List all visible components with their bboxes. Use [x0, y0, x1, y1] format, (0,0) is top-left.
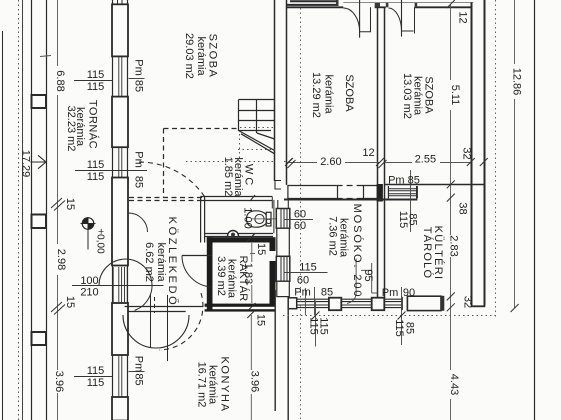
svg-text:KONYHA: KONYHA [219, 356, 231, 412]
svg-text:85: 85 [133, 80, 145, 92]
svg-text:210: 210 [80, 287, 98, 299]
svg-text:Pm 85: Pm 85 [388, 175, 420, 187]
svg-text:60: 60 [294, 209, 306, 221]
svg-text:90: 90 [403, 287, 415, 299]
svg-text:4.43: 4.43 [448, 374, 460, 395]
svg-text:Pm: Pm [133, 356, 145, 373]
svg-text:85: 85 [133, 176, 145, 188]
svg-text:+0,00: +0,00 [95, 228, 106, 254]
svg-text:115: 115 [87, 159, 105, 171]
svg-text:Pm: Pm [133, 151, 145, 168]
svg-text:32: 32 [461, 147, 473, 159]
svg-text:5.11: 5.11 [449, 85, 461, 106]
svg-text:13.03 m2: 13.03 m2 [401, 73, 413, 119]
svg-text:15: 15 [64, 198, 76, 210]
svg-text:1.83: 1.83 [242, 263, 254, 284]
svg-text:SZOBA: SZOBA [207, 34, 219, 79]
svg-text:15: 15 [255, 314, 267, 326]
svg-text:TÁROLÓ: TÁROLÓ [421, 227, 434, 279]
svg-text:3.96: 3.96 [53, 371, 65, 392]
svg-text:29.03 m2: 29.03 m2 [183, 33, 195, 79]
svg-text:12.86: 12.86 [511, 68, 523, 96]
svg-text:60: 60 [294, 220, 306, 232]
svg-text:1.00: 1.00 [242, 207, 254, 228]
svg-text:16.71 m2: 16.71 m2 [196, 362, 208, 408]
svg-text:115: 115 [87, 81, 105, 93]
svg-text:115: 115 [87, 377, 105, 389]
svg-text:3.96: 3.96 [249, 371, 261, 392]
svg-text:95: 95 [362, 269, 374, 281]
svg-text:kerámia: kerámia [323, 74, 335, 114]
svg-text:kerámia: kerámia [155, 242, 167, 282]
svg-text:17.29: 17.29 [20, 150, 32, 178]
svg-text:13.29 m2: 13.29 m2 [310, 72, 322, 118]
svg-text:32.23 m2: 32.23 m2 [65, 106, 77, 152]
svg-text:12: 12 [362, 147, 374, 159]
svg-text:Pm: Pm [382, 287, 399, 299]
svg-text:Pm: Pm [294, 287, 311, 299]
svg-text:85: 85 [407, 213, 419, 225]
svg-text:60: 60 [297, 275, 309, 287]
svg-text:3.39 m2: 3.39 m2 [215, 256, 227, 296]
svg-text:100: 100 [80, 275, 98, 287]
svg-text:115: 115 [318, 317, 330, 335]
svg-text:15: 15 [64, 296, 76, 308]
svg-text:85: 85 [404, 322, 416, 334]
svg-text:TORNÁC: TORNÁC [87, 100, 100, 149]
svg-text:115: 115 [393, 319, 405, 337]
svg-text:2.60: 2.60 [320, 156, 341, 168]
svg-text:2.98: 2.98 [55, 249, 67, 270]
svg-text:85: 85 [133, 373, 145, 385]
svg-text:32: 32 [462, 296, 474, 308]
svg-text:12: 12 [457, 11, 469, 23]
svg-text:Pm: Pm [133, 59, 145, 76]
svg-text:1.85 m2: 1.85 m2 [222, 157, 234, 197]
svg-text:KÖZLEKEDŐ: KÖZLEKEDŐ [166, 217, 180, 308]
svg-text:115: 115 [87, 69, 105, 81]
svg-text:38: 38 [457, 202, 469, 214]
svg-text:SZOBA: SZOBA [423, 76, 435, 114]
svg-text:6.62 m2: 6.62 m2 [143, 242, 155, 282]
svg-text:6.88: 6.88 [54, 70, 66, 91]
svg-text:kerámia: kerámia [195, 36, 207, 76]
svg-text:2.83: 2.83 [448, 235, 460, 256]
svg-text:115: 115 [87, 171, 105, 183]
svg-text:115: 115 [87, 365, 105, 377]
svg-text:SZOBA: SZOBA [343, 74, 355, 112]
svg-text:85: 85 [321, 287, 333, 299]
svg-text:MOSÓKO. 200: MOSÓKO. 200 [351, 204, 364, 299]
svg-text:2.55: 2.55 [415, 154, 436, 166]
svg-text:7.36 m2: 7.36 m2 [327, 216, 339, 256]
svg-text:115: 115 [299, 262, 317, 274]
svg-text:15: 15 [255, 243, 267, 255]
